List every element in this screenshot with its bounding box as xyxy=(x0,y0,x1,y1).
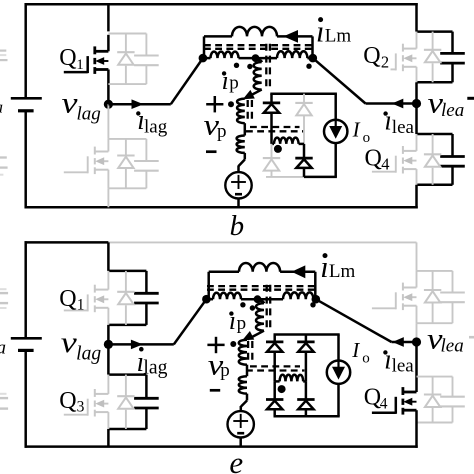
rectifier box top e xyxy=(274,333,340,336)
svg-text:Q: Q xyxy=(59,286,76,312)
wire right rail b lower xyxy=(415,185,418,209)
polarity dot primary upper b xyxy=(247,64,252,69)
svg-text:p: p xyxy=(217,121,227,142)
label - (v_p) e xyxy=(210,389,220,392)
transistor Q2 e gray xyxy=(416,271,418,288)
svg-text:ı: ı xyxy=(384,344,392,375)
wire Q2 to v_lea e gray xyxy=(416,323,418,342)
svg-text:o: o xyxy=(362,351,370,367)
voltage source Va battery e xyxy=(11,337,42,340)
transistor Q3 (off) b gray xyxy=(107,139,109,152)
body diode D3 e gray xyxy=(125,375,127,397)
svg-text:lea: lea xyxy=(392,356,415,377)
secondary winding b xyxy=(272,143,275,146)
wire Q1 leg top e xyxy=(107,242,110,271)
diode DR2 (off) b gray xyxy=(303,94,305,103)
svg-text:a: a xyxy=(0,98,3,117)
svg-text:lag: lag xyxy=(144,116,168,137)
label + (v_p) e xyxy=(207,344,224,347)
wire leg to Q3 b (gray) xyxy=(107,104,109,139)
arrow i_Lm b xyxy=(283,30,298,43)
svg-text:p: p xyxy=(220,360,230,381)
wire leg below v_lag e xyxy=(107,344,110,374)
svg-text:Q: Q xyxy=(364,385,381,411)
svg-text:lag: lag xyxy=(76,343,101,364)
body diode D2 e gray xyxy=(432,271,434,290)
polarity dot primary upper e xyxy=(250,305,255,310)
inductor Lm loop e xyxy=(207,272,210,299)
svg-text:4: 4 xyxy=(381,154,389,173)
core dashed line vertical pair e xyxy=(266,285,268,331)
node transformer left b xyxy=(199,54,208,63)
rectifier right rail e xyxy=(337,335,340,361)
arrow i_lea e xyxy=(392,337,404,347)
svg-text:Lm: Lm xyxy=(325,26,352,47)
commutation loop Q4 bottom b xyxy=(417,184,453,187)
inductor Lm loop b xyxy=(203,36,206,58)
wire v_lag to bend e xyxy=(108,343,173,346)
commutation loop Q2 top b xyxy=(417,30,453,33)
diode DR1 (on) b xyxy=(263,102,280,105)
core dashed line horizontal b xyxy=(204,44,316,46)
svg-text:p: p xyxy=(237,313,247,334)
core dashed vertical pair lower b xyxy=(247,100,249,124)
svg-text:lea: lea xyxy=(392,117,415,138)
svg-text:I: I xyxy=(351,338,360,362)
diode DR2 (on) e xyxy=(305,335,308,342)
wire Q1 drain lead b xyxy=(107,4,110,31)
wire Q1 source lead b xyxy=(107,70,110,105)
voltage source Va battery b xyxy=(11,97,42,100)
wire stub right edge e gray xyxy=(469,336,474,339)
core dashed vertical pair lower e xyxy=(247,341,249,365)
svg-text:e: e xyxy=(229,445,243,474)
svg-text:o: o xyxy=(363,130,371,146)
svg-text:2: 2 xyxy=(381,52,389,71)
body diode D3 b (gray) xyxy=(125,139,127,156)
svg-text:Q: Q xyxy=(363,43,380,69)
wire top rail e black segment xyxy=(25,241,109,244)
transistor Q1 (off) e gray xyxy=(107,271,109,290)
capacitor C1 b (gray) xyxy=(145,34,147,56)
svg-text:lea: lea xyxy=(441,335,464,356)
label - (v_p) b xyxy=(206,150,217,153)
node v_lag b xyxy=(104,100,113,109)
commutation loop Q1 bottom e xyxy=(108,324,146,327)
svg-text:Q: Q xyxy=(59,45,76,71)
node v_lea e xyxy=(412,337,421,346)
gray fragment left edge b lower xyxy=(0,156,7,158)
snubber network Q3 b (gray) xyxy=(108,138,146,140)
wire v_lea horizontal e xyxy=(392,341,417,344)
wire diagonal to transformer left b xyxy=(171,58,203,104)
svg-text:ı: ı xyxy=(384,106,392,137)
voltage source Vp b xyxy=(225,172,251,198)
primary winding upper e xyxy=(258,300,265,303)
current source Io e xyxy=(327,361,350,384)
wire Q4 to bottom rail e xyxy=(415,410,418,448)
capacitor C3 (charging) e xyxy=(145,375,148,399)
primary winding lower b xyxy=(237,99,245,124)
label + (v_p) b xyxy=(206,103,223,106)
inductor L_lea e xyxy=(258,298,284,301)
secondary winding e xyxy=(275,380,280,383)
inductor L_lag e xyxy=(206,298,213,301)
switch network Q4 lines e gray xyxy=(417,376,453,378)
svg-text:Lm: Lm xyxy=(329,261,356,282)
wire stub right edge b xyxy=(467,97,474,100)
wire leg to v_lag e xyxy=(107,325,110,345)
arrow i_Lm e xyxy=(292,265,306,278)
capacitor C4 e gray xyxy=(452,377,454,397)
switch network Q2 (inactive) e gray xyxy=(417,270,453,272)
core dashed line horizontal e xyxy=(207,285,318,287)
svg-text:1: 1 xyxy=(77,296,85,313)
wire bottom rail b xyxy=(25,206,418,209)
wire top rail e gray segment xyxy=(108,241,416,243)
wire right rail e upper gray xyxy=(416,242,418,271)
diode DR1 (on) e xyxy=(273,335,276,342)
wire Q3 to bottom rail e xyxy=(107,429,110,447)
svg-text:b: b xyxy=(230,210,245,242)
transistor Q2 (off) b gray xyxy=(416,32,418,49)
body diode D2 b gray xyxy=(432,32,434,50)
primary winding lower e xyxy=(239,340,247,365)
wire diagonal to v_lea b xyxy=(313,58,366,103)
svg-text:ı: ı xyxy=(229,306,236,335)
core dashed bend to rectifier b xyxy=(250,126,300,128)
capacitor C3 b (gray) xyxy=(145,139,147,161)
rectifier bottom black segment b xyxy=(304,176,337,179)
wire Vp to bottom rail e xyxy=(239,437,242,446)
wire Vp to bottom rail b xyxy=(237,198,240,207)
arrow i_lea b xyxy=(392,99,404,109)
svg-text:lag: lag xyxy=(143,357,167,379)
wire diagonal to v_lea e xyxy=(316,299,392,342)
transistor Q1 (on) b xyxy=(95,50,109,53)
wire Q3 to bottom rail b (gray) xyxy=(107,188,109,207)
commutation loop Q1 top e xyxy=(108,270,146,273)
svg-text:lea: lea xyxy=(441,100,464,121)
node transformer left e xyxy=(202,295,211,304)
gray fragment left edge e upper xyxy=(0,288,7,290)
polarity dot L_lag b xyxy=(234,63,239,68)
commutation loop Q3 bottom e xyxy=(108,428,146,431)
commutation loop Q4 top b xyxy=(417,133,453,136)
capacitor C4 (charging) b xyxy=(451,134,454,157)
capacitor C2 e gray xyxy=(452,271,454,293)
transistor Q3 (off) e gray xyxy=(107,375,109,394)
node transformer center e xyxy=(254,295,262,303)
rectifier bottom gray segment b xyxy=(266,176,304,178)
node transformer right e xyxy=(312,295,321,304)
wire v_lea to Q4 e xyxy=(415,342,418,392)
svg-text:a: a xyxy=(0,337,6,358)
svg-text:1: 1 xyxy=(76,57,84,73)
rectifier bottom e xyxy=(274,415,340,418)
node v_lea b xyxy=(412,99,421,108)
voltage source Vp e xyxy=(228,411,254,437)
svg-text:3: 3 xyxy=(77,399,85,416)
arrow i_lag b xyxy=(132,99,144,109)
svg-text:v: v xyxy=(61,326,78,359)
transistor Q4 (on) e xyxy=(403,391,417,394)
commutation loop Q3 top e xyxy=(108,373,146,376)
wire left rail b upper xyxy=(24,3,27,98)
transistor Q4 (off) b gray xyxy=(416,134,418,151)
wire v_lea horizontal b xyxy=(366,102,417,105)
wire v_lag to bend b xyxy=(108,103,170,106)
wire left rail b lower xyxy=(24,111,27,209)
svg-text:lag: lag xyxy=(77,104,101,125)
capacitor C1 (charging) e xyxy=(145,271,148,293)
polarity dot v_p e xyxy=(230,341,236,347)
node transformer center b xyxy=(252,54,260,62)
body diode D1 b (gray) xyxy=(125,34,127,53)
gray fragment left edge b upper xyxy=(0,49,6,51)
diode DR3 (on) e xyxy=(273,381,276,399)
core dashed line vertical pair b xyxy=(265,44,267,90)
diode DR3 (off) b gray xyxy=(271,144,273,158)
arrow i_lag e xyxy=(131,340,143,350)
arrow i_p b xyxy=(243,90,255,99)
svg-text:I: I xyxy=(352,118,361,142)
wire bottom rail e xyxy=(25,445,418,448)
polarity dot secondary e xyxy=(278,385,286,393)
rectifier box top b xyxy=(270,92,337,95)
body diode D1 e gray xyxy=(125,271,127,292)
polarity dot L_lag e xyxy=(240,302,245,307)
polarity dot L_lea e xyxy=(310,302,315,307)
polarity dot secondary b xyxy=(274,145,282,153)
diode DR4 (on) e xyxy=(305,381,308,399)
commutation loop Q2 bottom b xyxy=(417,81,453,84)
capacitor C2 (charging) b xyxy=(451,32,454,54)
svg-text:4: 4 xyxy=(380,396,388,413)
polarity dot v_p b xyxy=(228,101,234,107)
wire diagonal to transformer left e xyxy=(174,299,207,344)
node v_lag e xyxy=(104,340,113,349)
core dashed bend to rectifier e xyxy=(250,365,300,367)
inductor L_lea b xyxy=(256,57,278,60)
svg-text:Q: Q xyxy=(365,146,382,172)
gray fragment left edge e lower xyxy=(0,393,7,395)
wire right leg mid b xyxy=(415,82,418,134)
svg-text:Q: Q xyxy=(59,388,76,414)
snubber network Q1 b (gray) xyxy=(108,33,146,35)
diode DR4 (on) b xyxy=(303,144,306,158)
polarity dot L_lea b xyxy=(306,63,311,68)
wire left rail e upper xyxy=(24,241,27,338)
svg-text:p: p xyxy=(229,73,239,94)
primary winding upper b xyxy=(256,59,262,62)
inductor L_lag b xyxy=(203,57,211,60)
arrow i_p e xyxy=(242,331,254,340)
wire top rail b xyxy=(25,3,418,6)
node transformer right b xyxy=(309,54,318,63)
body diode D4 b gray xyxy=(432,134,434,154)
body diode D4 e gray xyxy=(432,377,434,395)
rectifier left leg upper b xyxy=(270,94,273,103)
rectifier right rail b xyxy=(334,94,337,120)
wire right rail b upper xyxy=(415,3,418,32)
svg-text:ı: ı xyxy=(222,66,229,95)
wire left rail e lower xyxy=(24,350,27,447)
current source Io b xyxy=(324,120,347,143)
